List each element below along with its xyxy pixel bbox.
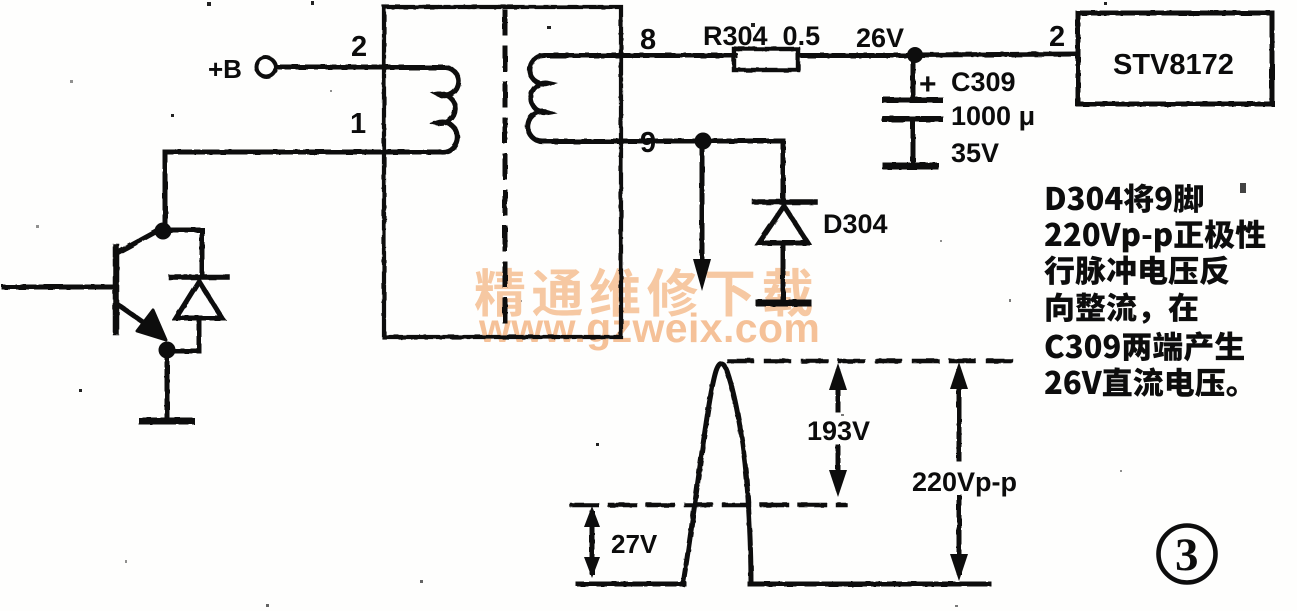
note text block D304/C309 description <box>1044 184 1265 398</box>
emitter junction dot <box>159 342 176 359</box>
wire collector to damper diode top <box>163 230 202 277</box>
svg-text:27V: 27V <box>611 529 658 559</box>
transformer core dashed line <box>503 12 508 332</box>
wire transformer pin 1 to transistor collector <box>165 152 443 226</box>
svg-text:1000 μ: 1000 μ <box>951 101 1035 131</box>
transistor emitter arrowhead <box>137 310 166 340</box>
svg-text:C309: C309 <box>951 67 1016 97</box>
svg-text:2: 2 <box>1049 21 1065 53</box>
wire D304 to ground <box>781 243 786 300</box>
svg-text:STV8172: STV8172 <box>1113 49 1234 81</box>
transistor Q: emitter lead <box>117 304 150 327</box>
svg-text:193V: 193V <box>807 416 870 446</box>
wire 26V node down to C309 <box>911 55 916 98</box>
wire +B to transformer pin 2 <box>276 65 386 70</box>
figure number circle 3 <box>1159 526 1216 583</box>
wire pin 8 to R304 <box>619 53 735 58</box>
transistor Q: collector lead <box>117 229 161 253</box>
arrowhead of pin9 down arrow <box>693 259 711 291</box>
C309 top plate <box>885 97 940 103</box>
wire to D304 <box>781 141 786 200</box>
wire R304 to 26V node <box>798 53 916 58</box>
svg-text:+: + <box>919 68 937 101</box>
+B terminal circle <box>257 58 276 77</box>
waveform right baseline <box>750 582 989 587</box>
pin 9 node dot <box>695 133 712 150</box>
D304 cathode bar <box>755 199 815 205</box>
svg-text:D304: D304 <box>823 209 888 239</box>
svg-text:3: 3 <box>1175 529 1199 581</box>
D304 triangle <box>759 206 808 243</box>
wire transformer pin 9 <box>619 139 783 144</box>
svg-text:1: 1 <box>350 108 366 140</box>
middle dashed level line <box>572 503 845 507</box>
svg-text:220Vp-p: 220Vp-p <box>912 467 1017 497</box>
svg-text:+B: +B <box>208 54 242 84</box>
top dashed peak line <box>729 359 1014 363</box>
26V node dot <box>907 47 923 63</box>
wire emitter to ground <box>165 351 170 418</box>
waveform pulse <box>683 364 751 585</box>
watermark 精通维修下载 <box>475 268 812 317</box>
wire 26V node to STV8172 pin 2 <box>915 54 1078 55</box>
C309 bottom plate <box>885 116 940 122</box>
svg-text:www.gzweix.com: www.gzweix.com <box>478 305 820 351</box>
193V arrow shaft <box>836 372 841 410</box>
svg-text:35V: 35V <box>951 138 999 168</box>
svg-text:26V: 26V <box>856 23 904 53</box>
STV8172 IC box <box>1078 13 1272 104</box>
transformer primary winding <box>386 68 459 153</box>
transformer T301 box <box>384 7 621 337</box>
ground bar below D304 <box>759 300 808 307</box>
27V arrow shaft <box>590 513 595 572</box>
wire C309 to ground <box>911 119 916 163</box>
collector junction dot <box>155 223 172 240</box>
wire node 9 down (arrow shaft) <box>700 141 705 265</box>
transformer secondary winding <box>528 55 621 141</box>
220Vp-p arrowheads <box>950 362 968 581</box>
waveform group <box>572 361 1014 584</box>
220Vp-p arrow shaft <box>957 372 962 459</box>
193V arrowheads <box>829 363 847 497</box>
damper diode cathode bar <box>171 274 227 280</box>
svg-text:8: 8 <box>640 24 656 56</box>
svg-text:9: 9 <box>640 127 656 159</box>
transistor Q: base lead wire <box>4 285 114 290</box>
ground bar below C309 <box>886 163 935 170</box>
damper diode triangle <box>176 281 222 318</box>
svg-text:2: 2 <box>351 31 367 63</box>
wire damper diode to emitter <box>167 318 199 351</box>
svg-text:R304 0.5: R304 0.5 <box>703 21 820 51</box>
resistor R304 body <box>734 49 798 70</box>
waveform left baseline <box>578 582 684 587</box>
transistor Q: base bar <box>113 247 120 332</box>
27V arrowheads <box>584 506 600 578</box>
ground bar below transistor <box>142 418 191 425</box>
